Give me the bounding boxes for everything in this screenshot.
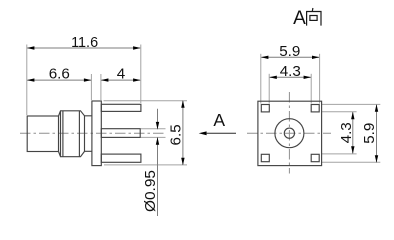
svg-text:4.3: 4.3 xyxy=(338,122,355,143)
svg-text:6.5: 6.5 xyxy=(168,124,185,145)
svg-text:4: 4 xyxy=(117,65,125,82)
svg-text:A: A xyxy=(293,8,306,29)
svg-text:11.6: 11.6 xyxy=(71,34,98,51)
svg-text:5.9: 5.9 xyxy=(361,123,378,144)
svg-text:Ø0.95: Ø0.95 xyxy=(142,170,159,212)
svg-text:5.9: 5.9 xyxy=(279,43,300,60)
svg-text:A: A xyxy=(213,110,225,130)
svg-text:6.6: 6.6 xyxy=(49,65,70,82)
svg-text:4.3: 4.3 xyxy=(280,63,301,80)
